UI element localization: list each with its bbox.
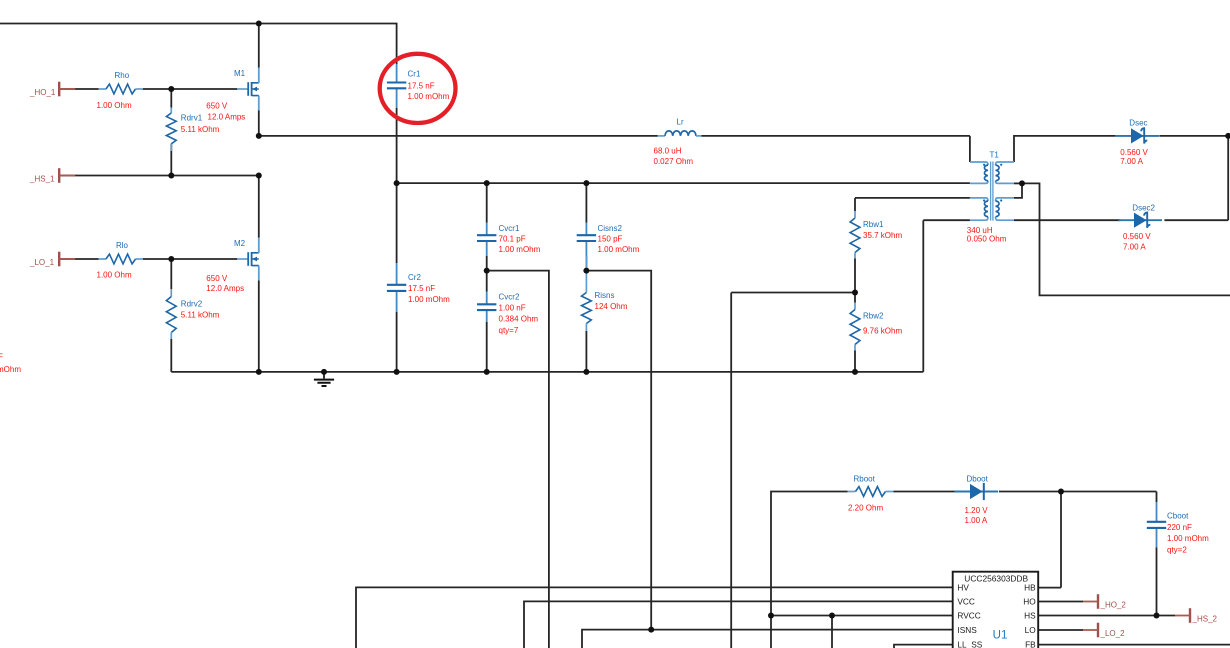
svg-text:Dsec2: Dsec2: [1132, 204, 1155, 213]
wire BW node: [731, 292, 855, 294]
port _LO_2: [1083, 623, 1125, 638]
junction: [768, 613, 774, 619]
svg-text:M1: M1: [234, 69, 246, 78]
svg-text:_HS_2: _HS_2: [1192, 615, 1218, 624]
junction: [394, 180, 400, 186]
wire Rlo to M2 gate: [143, 258, 237, 260]
resistor Rbw2: [850, 303, 860, 351]
svg-text:0.560 V: 0.560 V: [1123, 232, 1151, 241]
svg-text:0.560 V: 0.560 V: [1120, 148, 1148, 157]
diode Dboot: [954, 483, 998, 500]
wire top rail to Cr1: [0, 24, 397, 65]
junction: [583, 180, 589, 186]
capacitor Cboot: [1147, 502, 1166, 548]
wire M2 source down: [258, 281, 260, 372]
junction: [256, 21, 262, 27]
transistor M1: [234, 68, 259, 111]
wire M1 drain: [258, 24, 260, 68]
wire Cboot bottom: [1156, 548, 1158, 616]
svg-text:9.76 kOhm: 9.76 kOhm: [863, 327, 902, 336]
wire RVCC branch 1: [770, 616, 772, 648]
wire T1 sec1 to Dsec: [1014, 136, 1115, 162]
svg-text:Rbw2: Rbw2: [863, 312, 884, 321]
wire _HO_1 to Rho: [59, 88, 98, 90]
port _HS_1: [29, 168, 75, 183]
wire LL_SS pin: [894, 645, 953, 648]
resistor Risns: [582, 256, 592, 331]
resistor Rbw1: [850, 211, 860, 259]
wire Risns bottom: [585, 331, 587, 372]
svg-text:0.050 Ohm: 0.050 Ohm: [967, 234, 1007, 243]
wire sec center: [1014, 182, 1022, 184]
wire Rbw1 bottom: [854, 259, 856, 293]
wire M2 drain: [258, 176, 260, 238]
svg-text:0.027 Ohm: 0.027 Ohm: [654, 157, 694, 166]
wire ground rail: [171, 371, 923, 373]
svg-text:Rdrv2: Rdrv2: [181, 300, 203, 309]
svg-text:HB: HB: [1024, 582, 1036, 592]
svg-text:Cvcr1: Cvcr1: [499, 224, 520, 233]
wire to Rbw2: [854, 293, 856, 303]
wire T1 sec2 to Dsec2: [1014, 219, 1120, 221]
junction: [484, 268, 490, 274]
capacitor Cr1: [387, 64, 406, 108]
junction: [852, 369, 858, 375]
svg-text:Dboot: Dboot: [967, 475, 989, 484]
wire Rho to M1 gate: [143, 88, 237, 90]
junction: [484, 180, 490, 186]
port _HS_2: [1175, 608, 1218, 623]
wire to Cr2: [396, 183, 398, 263]
svg-text:124 Ohm: 124 Ohm: [595, 302, 628, 311]
svg-text:U1: U1: [993, 629, 1008, 641]
inductor Lr: [658, 131, 702, 136]
svg-text:Dsec: Dsec: [1129, 118, 1147, 127]
junction: [1058, 489, 1064, 495]
svg-text:M2: M2: [234, 239, 246, 248]
wire VCR node down: [487, 271, 549, 648]
svg-text:1.00 mOhm: 1.00 mOhm: [408, 295, 450, 304]
svg-text:VCC: VCC: [957, 596, 975, 606]
wire down to T1 primary top: [969, 136, 971, 162]
svg-text:HS: HS: [1024, 611, 1036, 621]
capacitor Cvcr1: [477, 223, 496, 257]
wire bias winding top: [855, 197, 970, 199]
svg-text:Lr: Lr: [677, 118, 684, 127]
svg-text:17.5 nF: 17.5 nF: [408, 82, 435, 91]
wire to Cvcr1: [486, 183, 488, 222]
svg-text:7.00 A: 7.00 A: [1120, 157, 1143, 166]
wire LO pin: [1038, 629, 1083, 631]
wire Cvcr2 bottom: [486, 322, 488, 372]
junction: [583, 268, 589, 274]
op-amp U1 UCC256303DDB controller box: [953, 572, 1038, 648]
transformer T1: [970, 162, 1014, 221]
wire RVCC branch 2: [831, 616, 833, 648]
transistor M2: [234, 238, 259, 281]
svg-text:qty=7: qty=7: [499, 326, 519, 335]
svg-text:150 pF: 150 pF: [598, 234, 623, 243]
wire VCC pin: [524, 601, 953, 648]
wire to Cisns2: [585, 183, 587, 222]
svg-text:Cboot: Cboot: [1167, 511, 1189, 520]
svg-text:UCC256303DDB: UCC256303DDB: [964, 574, 1028, 584]
svg-text:17.5 nF: 17.5 nF: [408, 284, 435, 293]
svg-text:12.0 Amps: 12.0 Amps: [206, 284, 244, 293]
svg-text:Cisns2: Cisns2: [598, 224, 623, 233]
svg-text:1.00 mOhm: 1.00 mOhm: [1167, 534, 1209, 543]
wire HB pin: [1038, 587, 1061, 589]
port _HO_1: [29, 82, 75, 97]
junction: [829, 613, 835, 619]
wire to HB pin: [1060, 492, 1062, 588]
wire Dboot to Cboot: [999, 491, 1157, 493]
svg-text:Cr2: Cr2: [408, 273, 421, 282]
wire HS pin: [1038, 615, 1175, 617]
port _HO_2: [1083, 594, 1126, 609]
wire Rdrv1 bottom: [170, 144, 172, 176]
capacitor Cr2: [387, 263, 406, 312]
svg-text:_HO_2: _HO_2: [1100, 601, 1127, 610]
wire Rdrv2 bottom: [170, 339, 172, 372]
svg-text:Rlo: Rlo: [116, 241, 129, 250]
junction: [321, 369, 327, 375]
wire Rboot to Dboot: [894, 491, 956, 493]
svg-text:FB: FB: [1025, 640, 1036, 648]
svg-text:220 nF: 220 nF: [1167, 523, 1192, 532]
svg-text:1.00 A: 1.00 A: [965, 516, 988, 525]
svg-text:1.20 V: 1.20 V: [965, 506, 989, 515]
resistor Rboot: [848, 487, 894, 497]
wire _HS_1 row: [59, 175, 259, 177]
wire Dsec2 cathode: [1164, 219, 1228, 221]
wire RVCC pin: [771, 615, 953, 617]
wire Cr1 bottom: [396, 108, 398, 183]
wire output join: [1227, 136, 1229, 220]
svg-text:RVCC: RVCC: [957, 611, 980, 621]
svg-text:_LO_2: _LO_2: [1100, 629, 1126, 638]
junction: [256, 133, 262, 139]
svg-text:Rdrv1: Rdrv1: [181, 114, 203, 123]
svg-text:650 V: 650 V: [206, 102, 228, 111]
wire RVCC to Rboot: [771, 492, 848, 616]
wire to Rbw1: [854, 198, 856, 211]
svg-text:Rho: Rho: [115, 71, 130, 80]
svg-text:Cr1: Cr1: [408, 70, 421, 79]
svg-text:Risns: Risns: [595, 291, 615, 300]
svg-text:650 V: 650 V: [206, 274, 228, 283]
junction: [1154, 613, 1160, 619]
svg-text:HV: HV: [957, 582, 969, 592]
svg-text:1.00 nF: 1.00 nF: [499, 303, 526, 312]
wire M1 source down: [258, 111, 260, 136]
junction: [648, 627, 654, 633]
wire Cisns2 bottom: [585, 256, 587, 271]
junction: [852, 290, 858, 296]
wire center tap return: [1022, 183, 1230, 295]
wire to Rdrv2 top: [170, 259, 172, 289]
capacitor Cisns2: [577, 223, 596, 257]
svg-text:68.0 uH: 68.0 uH: [654, 147, 682, 156]
svg-text:1.00 mOhm: 1.00 mOhm: [408, 92, 450, 101]
junction: [583, 369, 589, 375]
wire HO pin: [1038, 601, 1083, 603]
wire ISNS pin: [582, 630, 953, 648]
svg-text:35.7 kOhm: 35.7 kOhm: [863, 231, 902, 240]
svg-text:_LO_1: _LO_1: [29, 258, 55, 267]
svg-text:Rboot: Rboot: [854, 474, 876, 483]
wire Rbw2 bottom: [854, 351, 856, 372]
junction: [1019, 180, 1025, 186]
svg-text:5.11 kOhm: 5.11 kOhm: [181, 311, 220, 320]
wire bias winding bottom: [923, 219, 970, 221]
wire HV pin: [356, 587, 953, 648]
svg-text:1.00 mOhm: 1.00 mOhm: [598, 245, 640, 254]
wire to Cvcr2: [486, 271, 488, 292]
svg-text:T1: T1: [990, 151, 1000, 160]
wire Cr2 bottom: [396, 312, 398, 372]
svg-text:70.1 pF: 70.1 pF: [499, 234, 526, 243]
svg-text:LL_SS: LL_SS: [957, 640, 982, 648]
junction: [484, 369, 490, 375]
wire _LO_1 to Rlo: [59, 258, 98, 260]
svg-text:nF: nF: [0, 352, 3, 361]
resistor Rlo: [99, 254, 144, 264]
wire Cvcr1 bottom: [486, 256, 488, 271]
diode Dsec2: [1118, 213, 1162, 228]
wire FB pin: [1038, 644, 1230, 646]
wire switch node to Lr: [259, 135, 658, 137]
ground: [314, 372, 334, 386]
wire Lr to T1: [702, 135, 970, 137]
svg-text:ISNS: ISNS: [957, 625, 977, 635]
highlight ellipse around Cr1: [380, 54, 456, 123]
junction: [394, 369, 400, 375]
svg-text:_HO_1: _HO_1: [29, 88, 56, 97]
wire BW node down: [730, 293, 732, 648]
junction: [168, 86, 174, 92]
resistor Rdrv2: [166, 289, 176, 339]
svg-text:1.00 mOhm: 1.00 mOhm: [499, 245, 541, 254]
junction: [256, 173, 262, 179]
svg-text:qty=2: qty=2: [1167, 546, 1187, 555]
wire to Rdrv1 top: [170, 89, 172, 108]
svg-text:_HS_1: _HS_1: [29, 175, 55, 184]
port _LO_1: [29, 252, 75, 267]
svg-text:12.0 Amps: 12.0 Amps: [208, 113, 246, 122]
junction: [168, 256, 174, 262]
capacitor Cvcr2: [477, 292, 496, 323]
wire Dsec cathode to output: [1159, 135, 1230, 137]
svg-text:1.00 Ohm: 1.00 Ohm: [97, 271, 132, 280]
svg-text:1.00 mOhm: 1.00 mOhm: [0, 365, 21, 374]
resistor Rdrv1: [166, 108, 176, 152]
resistor Rho: [99, 84, 144, 94]
wire resonant node row: [397, 182, 970, 184]
junction: [1225, 133, 1230, 139]
junction: [256, 369, 262, 375]
svg-text:LO: LO: [1025, 625, 1037, 635]
svg-text:Cvcr2: Cvcr2: [499, 292, 520, 301]
svg-text:2.20 Ohm: 2.20 Ohm: [848, 504, 883, 513]
wire bias return down: [922, 220, 924, 372]
wire ISNS node down: [586, 271, 651, 630]
svg-text:7.00 A: 7.00 A: [1123, 242, 1146, 251]
svg-text:HO: HO: [1023, 596, 1036, 606]
svg-text:1.00 Ohm: 1.00 Ohm: [97, 101, 132, 110]
wire Cboot top: [1156, 492, 1158, 503]
junction: [168, 173, 174, 179]
svg-text:0.384 Ohm: 0.384 Ohm: [499, 315, 539, 324]
diode Dsec: [1115, 128, 1159, 143]
svg-text:5.11 kOhm: 5.11 kOhm: [181, 125, 220, 134]
wire sec series jog: [1014, 183, 1022, 198]
svg-text:Rbw1: Rbw1: [863, 220, 884, 229]
